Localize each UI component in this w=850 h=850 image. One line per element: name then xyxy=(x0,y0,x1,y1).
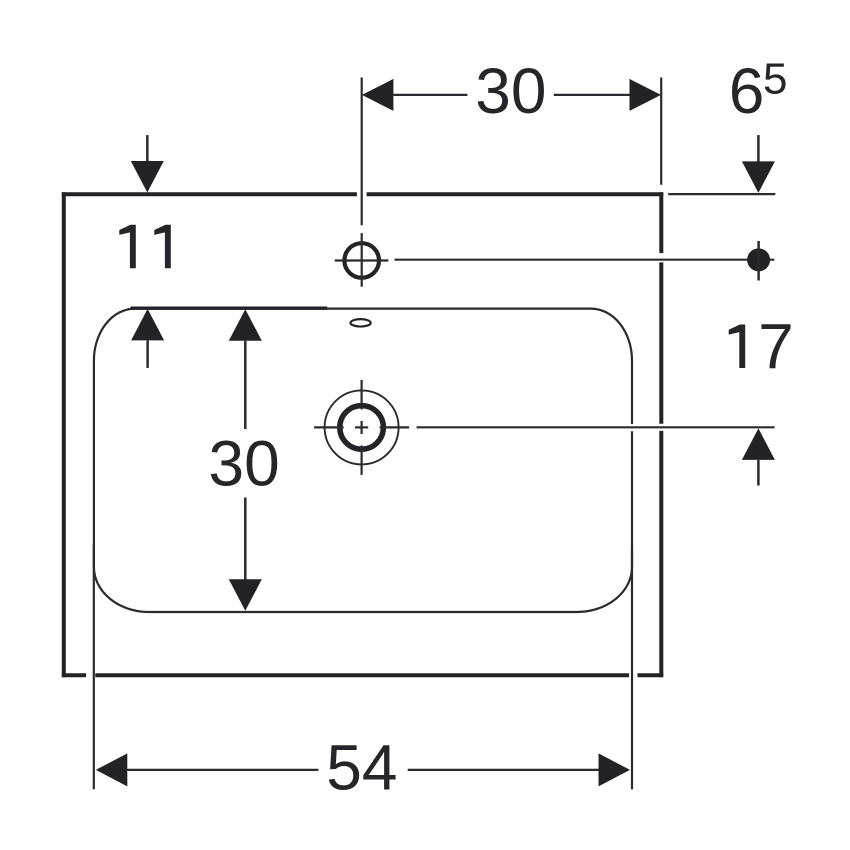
svg-text:5: 5 xyxy=(763,55,787,104)
basin top edge thicker left segment xyxy=(131,307,328,310)
sink outer outline right edge xyxy=(659,192,663,677)
faucet centerline extension to the right xyxy=(395,259,775,261)
dimension 11 label digit 1 xyxy=(119,225,136,268)
svg-text:30: 30 xyxy=(209,428,280,500)
extension line right edge for dimension 30 xyxy=(660,78,662,185)
basin inner outline xyxy=(94,309,632,612)
dimension 65: down arrow with tail xyxy=(757,135,760,163)
svg-text:6: 6 xyxy=(729,55,765,127)
drain crosshair ticks xyxy=(314,380,409,475)
sink outer outline bottom edge xyxy=(62,673,664,677)
dimension 11 top down arrow with tail xyxy=(146,135,149,163)
faucet hole circle xyxy=(344,243,379,278)
svg-text:7: 7 xyxy=(758,310,794,382)
faucet centerline up to dimension 30 xyxy=(361,78,363,226)
dimension 54: right arrow xyxy=(599,753,631,786)
sink outer outline left edge xyxy=(62,192,66,677)
faucet hole crosshair horizontal xyxy=(335,259,389,261)
dimension 17 label digit 1 xyxy=(729,325,746,369)
top edge thin extension line xyxy=(668,193,775,195)
dimension 54: right extension line xyxy=(631,545,633,789)
dimension 30 top: right arrow xyxy=(630,79,662,111)
svg-text:54: 54 xyxy=(326,732,397,804)
dimension 17 up arrow with tail xyxy=(742,428,775,460)
drain center cross xyxy=(355,421,368,434)
drain centerline extension to the right xyxy=(417,426,775,428)
sink outer outline top edge xyxy=(62,192,664,196)
dimension 11 label digit 1 (second) xyxy=(154,225,171,268)
dimension 30 vertical: line segments xyxy=(244,341,247,580)
dimension 54: left arrow xyxy=(96,753,128,786)
faucet hole crosshair vertical xyxy=(361,233,363,287)
dimension 30 vertical: bottom down arrow xyxy=(229,579,262,611)
svg-text:30: 30 xyxy=(475,55,546,127)
overflow slot oval xyxy=(351,319,371,326)
dimension 30 top: left arrow xyxy=(362,79,394,111)
dimension dot on faucet centerline xyxy=(747,248,770,271)
dot tick line xyxy=(757,241,760,281)
drain ring xyxy=(340,406,384,450)
dimension 30 top: line segments xyxy=(393,94,629,96)
drain outer circle xyxy=(325,390,399,464)
dimension 54: line segments xyxy=(127,769,598,771)
dimension 11 bottom up arrow with tail xyxy=(131,309,164,341)
dimension 54: left extension line xyxy=(93,545,95,789)
dimension 30 vertical: top up arrow xyxy=(229,309,262,341)
